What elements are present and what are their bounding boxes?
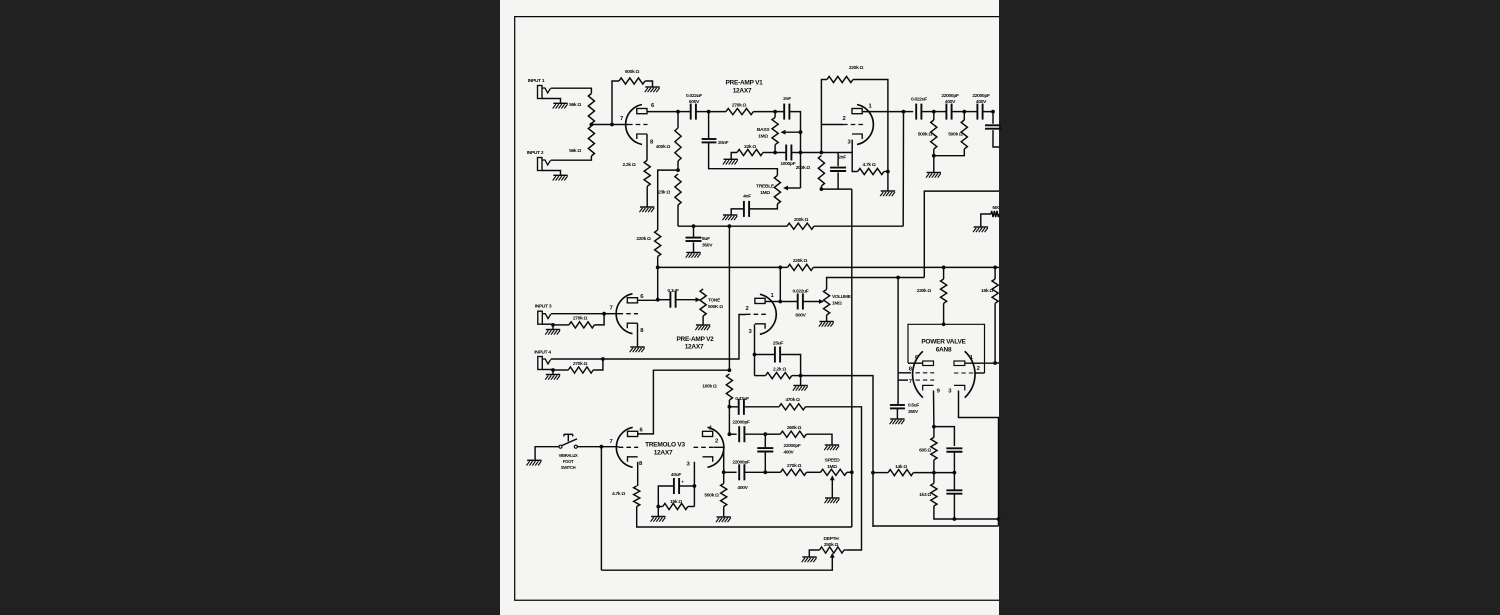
wire to V3a plate — [638, 370, 730, 434]
wire 230k top stub — [943, 267, 945, 279]
wire 20nF top — [708, 112, 710, 140]
wire cap B left — [964, 111, 977, 113]
triode V3a — [616, 427, 638, 467]
wire V1a grid — [612, 124, 628, 126]
wire VOLUME bottom — [826, 315, 828, 321]
svg-text:22000pF: 22000pF — [784, 443, 801, 449]
resistor 200k mix — [787, 223, 814, 229]
wire 20nF to treble — [709, 142, 778, 175]
capacitor 2nF bypass label — [838, 154, 846, 160]
wire 15k right stub — [688, 506, 695, 508]
wire 270k osc left — [765, 471, 780, 473]
ground J1 — [553, 103, 568, 108]
svg-text:TREBLE: TREBLE — [756, 184, 775, 190]
resistor 2.2k cathode label — [623, 162, 636, 168]
resistor 220k dropper — [655, 230, 661, 257]
wire right rail — [873, 525, 999, 527]
wire J3 res right — [594, 314, 604, 325]
input jack J2 label — [527, 150, 544, 156]
wire bias net down — [897, 278, 899, 404]
capacitor 0.5uF label — [908, 403, 919, 415]
resistor 605 label — [919, 447, 931, 453]
capacitor PI 2 — [946, 490, 962, 493]
wire B+ bus right — [813, 266, 999, 268]
triode V1b — [843, 105, 873, 145]
ground V2a cathode — [630, 347, 645, 352]
svg-text:1MΩ: 1MΩ — [760, 190, 770, 196]
svg-text:400V: 400V — [737, 485, 748, 491]
wire plate to 400k — [677, 112, 679, 128]
svg-text:POWER VALVE: POWER VALVE — [921, 339, 966, 346]
resistor 2.2k V2b label — [773, 367, 786, 373]
svg-text:23k Ω: 23k Ω — [658, 190, 670, 196]
triode V3a pin8 label — [639, 461, 643, 467]
wire V1a cathode — [646, 134, 648, 160]
svg-text:400V: 400V — [784, 449, 795, 455]
capacitor 8uF — [686, 238, 702, 241]
potentiometer BASS — [772, 117, 778, 144]
svg-text:2nF: 2nF — [783, 96, 791, 102]
svg-text:56k Ω: 56k Ω — [569, 148, 581, 154]
capacitor 1000pF — [786, 145, 791, 161]
wire depth wiper — [601, 557, 832, 570]
wire V1b cathode — [852, 140, 858, 172]
power valve box — [908, 324, 985, 373]
node V2a plate — [656, 298, 660, 302]
potentiometer VOLUME — [824, 289, 830, 315]
triode V3b pin2 label — [715, 439, 719, 445]
wire J3 tip — [551, 313, 604, 315]
svg-text:230k Ω: 230k Ω — [917, 288, 932, 294]
switch handle — [564, 434, 573, 441]
wire 600 left — [981, 214, 991, 227]
input jack J4 — [538, 357, 551, 370]
resistor 4.7k V3a label — [612, 491, 625, 497]
svg-text:605 Ω: 605 Ω — [919, 447, 931, 453]
svg-text:270k Ω: 270k Ω — [573, 316, 588, 322]
svg-text:VIBRALUX: VIBRALUX — [559, 453, 578, 458]
node 2.2k ground — [799, 374, 803, 378]
wire 23k to bus — [677, 205, 679, 226]
node V3b plate — [728, 432, 732, 436]
wire 270k to speed — [807, 471, 821, 473]
label PRE-AMP V2 — [676, 336, 714, 351]
wire 0.47uF right — [744, 406, 779, 408]
ground TONE — [695, 325, 710, 330]
cathode right 6AN8 — [954, 385, 965, 390]
wire 605 top stub — [933, 427, 935, 438]
ground 15k — [651, 517, 666, 522]
svg-text:INPUT 3: INPUT 3 — [535, 304, 552, 310]
wire 220k feedback left — [821, 80, 827, 125]
wire 500k bottom rail — [934, 149, 965, 156]
wire V3b cathode — [693, 462, 695, 507]
ground footswitch — [527, 460, 542, 465]
resistor 15k power — [992, 279, 998, 303]
wire 2.2k to ground — [646, 186, 648, 206]
resistor 2.2k V2b — [766, 373, 792, 379]
ground 4nF — [722, 215, 737, 220]
triode V1b pin3 label — [847, 140, 851, 146]
node V1a plate — [676, 110, 680, 114]
ground 500k — [645, 87, 660, 92]
resistor 500k B — [961, 120, 967, 149]
svg-text:TONE: TONE — [708, 298, 721, 304]
svg-text:470k Ω: 470k Ω — [785, 397, 800, 403]
resistor 270k tone — [726, 109, 753, 115]
wire plate bus right — [814, 225, 903, 227]
wire pin9 down — [933, 391, 935, 427]
svg-text:220k Ω: 220k Ω — [849, 65, 864, 71]
svg-text:12AX7: 12AX7 — [654, 449, 673, 456]
ground J3 — [545, 330, 560, 335]
resistor 470k — [779, 404, 805, 410]
wire 260k left — [765, 433, 780, 435]
wire VOLUME top — [827, 278, 899, 290]
wire osc1 right — [744, 433, 765, 435]
capacitor 2nF treble cap — [784, 104, 789, 120]
triode V2b pin3 label — [748, 329, 752, 335]
svg-text:SWITCH: SWITCH — [561, 465, 576, 470]
wire 8uF top — [693, 226, 695, 237]
resistor 4.7k V3a — [634, 486, 640, 507]
page border frame — [515, 17, 999, 601]
svg-text:22000pF: 22000pF — [732, 459, 750, 465]
triode V3b pin3 label — [686, 462, 690, 468]
wire 200k bottom rail — [821, 188, 851, 190]
capacitor 22000pF mid label — [784, 443, 801, 456]
node 20nF tap — [707, 110, 711, 114]
resistor 200k mix label — [794, 217, 809, 223]
potentiometer VOLUME label — [832, 294, 852, 306]
resistor 230k — [941, 279, 947, 303]
wire 100k to plate node — [728, 407, 730, 434]
wire C2 left — [904, 111, 914, 113]
wire plate right — [965, 362, 995, 364]
wire 15k down — [994, 303, 996, 363]
svg-text:220k Ω: 220k Ω — [793, 258, 808, 264]
wire J3 res left — [553, 324, 569, 326]
triode V3b pin1 label — [709, 426, 713, 432]
ground 4.7k V1b — [880, 191, 895, 196]
resistor 4.7k cathode V1b — [858, 168, 884, 174]
svg-text:0.022uF: 0.022uF — [686, 93, 702, 99]
svg-text:100k Ω: 100k Ω — [702, 384, 717, 390]
wire cap A right — [952, 111, 965, 113]
resistor 14k label — [895, 464, 907, 470]
svg-text:250k Ω: 250k Ω — [824, 542, 839, 548]
triode V2a — [616, 294, 638, 334]
wire 2.2k left — [755, 375, 766, 377]
resistor 500k grid leak — [619, 78, 645, 84]
potentiometer TONE label — [708, 298, 723, 310]
resistor 605 — [931, 437, 937, 460]
svg-text:DEPTH: DEPTH — [824, 536, 840, 542]
wire 40uF right stub — [679, 485, 694, 487]
input jack J3 — [538, 311, 551, 324]
capacitor 25uF label — [773, 340, 783, 346]
wire to 270k — [709, 111, 726, 113]
white schematic page — [500, 0, 999, 615]
capacitor 0.1uF — [670, 292, 675, 308]
resistor 56k R2 label — [569, 148, 581, 154]
resistor 260k label — [787, 425, 802, 431]
wire 605 bottom — [933, 460, 935, 473]
node tone feed — [728, 224, 732, 228]
wire 0.5uF top — [896, 403, 899, 405]
svg-text:400k Ω: 400k Ω — [656, 144, 671, 150]
node bias feed — [896, 276, 900, 280]
label TREMOLO V3 — [645, 442, 685, 457]
wire J3 sleeve — [542, 323, 553, 325]
ground 260k — [824, 445, 839, 450]
wire 0.5uF bottom — [896, 408, 898, 418]
input jack J2 — [538, 158, 551, 171]
node 200k top — [820, 151, 824, 155]
wire treble bottom to 4nF — [748, 204, 777, 209]
capacitor 40uF — [674, 478, 679, 494]
resistor 1k3 label — [919, 492, 931, 498]
node J3 grid — [602, 312, 606, 316]
svg-text:PRE-AMP V1: PRE-AMP V1 — [725, 80, 763, 87]
wire plate bus — [678, 225, 787, 227]
node box top — [942, 322, 946, 326]
ground DEPTH — [802, 557, 817, 562]
node J3 ground — [551, 323, 555, 327]
wire 8uF bottom — [693, 242, 695, 252]
wire V2b plate up — [779, 267, 781, 301]
svg-text:8uF: 8uF — [702, 236, 710, 242]
wire osc2 right — [744, 471, 765, 473]
ground 0.5uF — [890, 419, 905, 424]
svg-text:260k Ω: 260k Ω — [787, 425, 802, 431]
grid pin8 dashes — [916, 372, 935, 374]
input jack J1 — [538, 86, 551, 99]
wire J4 sleeve — [542, 369, 553, 371]
svg-text:600V: 600V — [795, 313, 806, 319]
resistor 600 label — [992, 205, 1000, 211]
resistor 22k — [737, 149, 763, 155]
wire cap1 bottom — [953, 452, 955, 473]
bass wiper arrow — [781, 130, 786, 135]
node J4 ground — [551, 368, 555, 372]
resistor 14k — [888, 470, 913, 476]
resistor 270k tone label — [732, 103, 747, 109]
wire 220k to B+ node — [657, 257, 659, 300]
wire 200k bottom — [820, 186, 822, 189]
wire 4nF to ground — [731, 209, 744, 215]
wire 470k to depth — [805, 407, 861, 550]
resistor 500k B label — [948, 132, 963, 138]
ground 2.2k V2b — [793, 386, 808, 391]
wire 1000pF right — [791, 152, 800, 154]
wire 15k ground stub — [657, 507, 659, 517]
capacitor 22000pF osc1 label — [732, 419, 750, 425]
capacitor PI 1 — [946, 448, 962, 451]
switch contact right — [574, 445, 577, 448]
node 15k top — [993, 266, 997, 270]
resistor 220k feedback — [827, 76, 853, 82]
wire tone feed down — [728, 226, 730, 370]
wire out cap left — [780, 301, 797, 303]
node grid-leak — [610, 123, 614, 127]
wire mid cap bottom — [764, 452, 766, 473]
wire 2.2k right — [792, 375, 801, 377]
wire 100k bottom — [728, 400, 730, 407]
svg-text:INPUT 2: INPUT 2 — [527, 150, 544, 156]
ground J2 — [553, 175, 568, 180]
ground 2.2k — [639, 207, 654, 212]
wire pin3 loop — [959, 391, 999, 527]
node J4 grid — [601, 357, 605, 361]
node 4.7k ground — [886, 170, 890, 174]
node right edge — [997, 517, 1001, 521]
potentiometer SPEED label — [825, 458, 841, 470]
wire bass top stub — [774, 112, 776, 118]
wire PI bottom right — [954, 518, 998, 520]
svg-text:270k Ω: 270k Ω — [732, 103, 747, 109]
treble wiper arrow — [783, 186, 788, 191]
resistor 600 — [991, 211, 999, 217]
wire 2.2k node right — [801, 376, 873, 527]
pin2 label — [977, 366, 981, 372]
pin1 label — [970, 355, 974, 361]
wire J3 to V2a grid — [604, 313, 618, 315]
wire output cap down — [993, 130, 999, 147]
capacitor 0.022uF C1 label — [686, 93, 702, 105]
triode V2a pin7 label — [609, 306, 613, 312]
wire 500kA bottom — [933, 149, 935, 156]
resistor 56k R1 — [588, 94, 594, 124]
svg-text:20nF: 20nF — [718, 140, 728, 146]
speed wiper arrow — [830, 475, 835, 480]
svg-text:350V: 350V — [908, 409, 919, 415]
svg-text:270k Ω: 270k Ω — [573, 361, 588, 367]
wire J2 sleeve — [542, 171, 561, 175]
ground SPEED — [825, 498, 840, 503]
wire V1a plate to node — [647, 111, 678, 113]
node 200k bottom — [820, 187, 824, 191]
volume wiper arrow — [819, 299, 824, 304]
wire speed right — [847, 471, 852, 473]
capacitor 0.022uF out label — [793, 288, 809, 318]
node output cap — [991, 110, 995, 114]
wire J1 tip to R1 — [551, 88, 592, 93]
resistor 200k — [818, 156, 824, 186]
wire 400k to node — [677, 161, 679, 170]
wire J3 ground stub — [552, 324, 554, 329]
capacitor 4nF label — [743, 193, 751, 199]
capacitor 0.47uF label — [735, 396, 749, 402]
capacitor 8uF label — [702, 236, 713, 248]
wire V2a plate lead — [638, 299, 658, 301]
node V2b plate feed — [778, 266, 782, 270]
node V2b plate — [778, 300, 782, 304]
ground 22k — [723, 159, 738, 164]
node cap mid — [953, 471, 957, 475]
pin6 label — [915, 355, 919, 361]
wire 500kB top stub — [963, 112, 965, 120]
wire 1k3 bottom — [934, 506, 955, 519]
wire pin7 — [898, 379, 908, 381]
node PI bottom — [953, 517, 957, 521]
svg-text:0.47uF: 0.47uF — [735, 396, 749, 402]
node slider-1000pF — [799, 151, 803, 155]
wire 270k to bass node — [753, 111, 784, 113]
potentiometer TREBLE label — [756, 184, 775, 196]
resistor 56k R1 label — [569, 102, 581, 108]
node cathode 25uF — [753, 353, 757, 357]
pin7 label — [909, 379, 913, 385]
capacitor 0.1uF label — [667, 288, 679, 294]
svg-text:500K Ω: 500K Ω — [708, 304, 723, 310]
capacitor 40uF label — [671, 472, 685, 485]
svg-text:INPUT 1: INPUT 1 — [528, 78, 545, 84]
wire B+ bus left — [658, 266, 788, 268]
resistor 270k J3 label — [573, 316, 588, 322]
node 400k-23k — [676, 168, 680, 172]
wire plate left — [908, 362, 923, 364]
ground VOLUME — [819, 322, 834, 327]
input jack J4 label — [534, 350, 551, 356]
svg-text:14k Ω: 14k Ω — [895, 464, 907, 470]
triode V1b pin1 label — [868, 104, 872, 110]
wire 15k left stub — [658, 506, 663, 508]
resistor 500k A — [931, 120, 937, 149]
wire J1 sleeve — [542, 99, 561, 103]
svg-text:TREMOLO V3: TREMOLO V3 — [645, 442, 685, 449]
svg-text:500k Ω: 500k Ω — [625, 69, 640, 75]
resistor 23k label — [658, 190, 670, 196]
svg-text:FOOT: FOOT — [563, 459, 574, 464]
svg-text:6AN8: 6AN8 — [936, 346, 952, 353]
triode V2b pin2 label — [745, 306, 749, 312]
wire 500kA top stub — [933, 112, 935, 120]
node bass bottom — [773, 151, 777, 155]
capacitor 22000pF A — [946, 104, 951, 120]
svg-text:2.2k Ω: 2.2k Ω — [773, 367, 786, 373]
svg-text:600: 600 — [992, 205, 1000, 211]
resistor 220k dropper label — [636, 236, 651, 242]
wire V2b plate lead — [765, 301, 780, 303]
wire J4 res right — [593, 359, 603, 370]
node 14k tap — [871, 471, 875, 475]
svg-text:1MΩ: 1MΩ — [758, 133, 768, 139]
node 15k plate — [993, 361, 997, 365]
wire 0.47uF left — [729, 406, 738, 408]
grid pin7 dashes — [916, 379, 935, 381]
resistor 22k label — [744, 144, 756, 150]
wire J4 ground stub — [552, 370, 554, 375]
wire R2 to J2 tip — [551, 156, 592, 160]
node PI mid — [932, 471, 936, 475]
capacitor 4nF — [744, 201, 749, 217]
svg-text:SPEED: SPEED — [825, 458, 841, 464]
wire cap B right — [983, 112, 993, 124]
switch contact left — [559, 445, 562, 448]
plate left 6AN8 — [923, 361, 934, 366]
node V3a plate tee — [728, 368, 732, 372]
node osc mid bottom — [763, 470, 767, 474]
resistor 500k grid leak label — [625, 69, 640, 75]
wire osc bus — [851, 189, 853, 527]
svg-text:0.5uF: 0.5uF — [908, 403, 919, 409]
wire cap2 top — [953, 473, 955, 491]
wire 500k V3b ground stub — [723, 507, 725, 517]
wire node to ground — [887, 172, 889, 191]
node footswitch — [600, 445, 604, 449]
wire A to V2b grid — [603, 315, 746, 360]
